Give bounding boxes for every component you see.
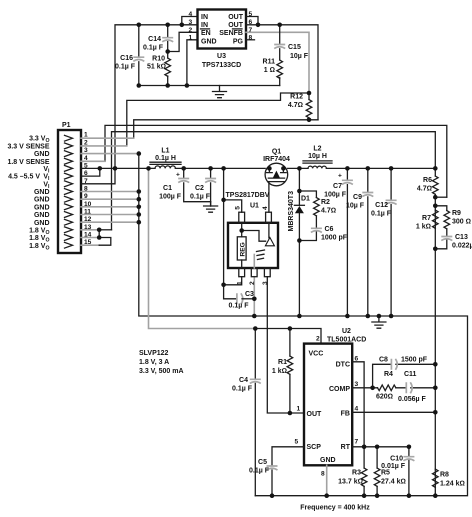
svg-text:3.3 V SENSE: 3.3 V SENSE: [7, 143, 49, 150]
svg-text:L1: L1: [161, 148, 169, 155]
svg-text:R4: R4: [384, 371, 393, 378]
svg-text:R6: R6: [423, 177, 432, 184]
svg-text:SENFB: SENFB: [219, 30, 243, 37]
svg-text:0.1µ F: 0.1µ F: [229, 303, 250, 310]
svg-text:R11: R11: [263, 59, 276, 66]
svg-text:GND: GND: [34, 151, 50, 158]
svg-text:1500 pF: 1500 pF: [401, 357, 428, 364]
svg-text:SCP: SCP: [307, 444, 322, 451]
svg-text:C10: C10: [390, 456, 403, 463]
svg-text:1000 pF: 1000 pF: [321, 235, 348, 242]
svg-text:R9: R9: [452, 210, 461, 217]
svg-text:OUT: OUT: [228, 14, 244, 21]
svg-text:RT: RT: [341, 444, 351, 451]
svg-text:GND: GND: [201, 39, 217, 46]
svg-text:4: 4: [355, 406, 359, 413]
svg-text:GND: GND: [320, 457, 336, 464]
svg-text:10µ H: 10µ H: [308, 153, 327, 160]
svg-text:C13: C13: [455, 234, 468, 241]
svg-text:1.8 V, 3 A: 1.8 V, 3 A: [139, 359, 169, 366]
svg-text:R8: R8: [440, 472, 449, 479]
svg-text:5: 5: [249, 11, 253, 18]
svg-text:VCC: VCC: [309, 351, 324, 358]
svg-text:C7: C7: [333, 183, 342, 190]
svg-text:0.1µ F: 0.1µ F: [232, 386, 253, 393]
svg-text:0.1µ F: 0.1µ F: [115, 64, 136, 71]
svg-text:+: +: [176, 172, 180, 179]
svg-text:IN: IN: [201, 14, 208, 21]
svg-text:0.1µ F: 0.1µ F: [143, 45, 164, 52]
svg-text:GND: GND: [34, 204, 50, 211]
svg-text:GND: GND: [34, 197, 50, 204]
svg-text:10µ F: 10µ F: [346, 203, 365, 210]
svg-text:GND: GND: [34, 189, 50, 196]
svg-text:EN: EN: [201, 30, 211, 37]
svg-text:3.3 V, 500 mA: 3.3 V, 500 mA: [139, 368, 184, 375]
svg-text:OUT: OUT: [228, 22, 244, 29]
svg-text:REG: REG: [239, 242, 246, 256]
svg-text:C16: C16: [120, 55, 133, 62]
svg-text:C8: C8: [379, 357, 388, 364]
svg-text:1 kΩ: 1 kΩ: [272, 368, 287, 375]
svg-text:GND: GND: [34, 220, 50, 227]
svg-text:1 kΩ: 1 kΩ: [416, 224, 431, 231]
svg-text:U2: U2: [342, 328, 351, 335]
svg-text:4: 4: [262, 206, 269, 210]
svg-text:7: 7: [355, 439, 359, 446]
svg-text:DTC: DTC: [336, 362, 350, 369]
svg-text:100µ F: 100µ F: [324, 192, 347, 199]
svg-text:R7: R7: [422, 215, 431, 222]
svg-text:4.7Ω: 4.7Ω: [321, 208, 336, 215]
svg-text:1: 1: [189, 35, 193, 42]
svg-text:IRF7404: IRF7404: [263, 156, 290, 163]
svg-text:100µ F: 100µ F: [159, 194, 182, 201]
svg-text:3: 3: [262, 281, 269, 285]
svg-text:R3: R3: [352, 470, 361, 477]
svg-text:27.4 kΩ: 27.4 kΩ: [381, 479, 406, 486]
svg-text:4.7Ω: 4.7Ω: [288, 102, 303, 109]
svg-text:620Ω: 620Ω: [376, 394, 393, 401]
svg-text:1.24 kΩ: 1.24 kΩ: [440, 481, 465, 488]
svg-text:0.1µ F: 0.1µ F: [249, 468, 270, 475]
svg-text:3: 3: [355, 381, 359, 388]
svg-text:0.01µ F: 0.01µ F: [381, 463, 406, 470]
svg-text:C12: C12: [375, 202, 388, 209]
svg-text:C4: C4: [239, 377, 248, 384]
svg-text:P1: P1: [62, 122, 71, 129]
svg-text:C11: C11: [404, 371, 417, 378]
svg-text:0.1µ H: 0.1µ H: [155, 155, 176, 162]
svg-text:2: 2: [316, 336, 320, 343]
svg-text:C5: C5: [258, 459, 267, 466]
svg-text:8: 8: [321, 471, 325, 478]
svg-text:Q1: Q1: [272, 149, 281, 156]
svg-text:TPS2817DBV: TPS2817DBV: [226, 192, 270, 199]
svg-text:C3: C3: [245, 291, 254, 298]
svg-text:7: 7: [249, 27, 253, 34]
svg-text:C15: C15: [288, 44, 301, 51]
svg-text:U1: U1: [250, 203, 259, 210]
svg-text:C14: C14: [148, 36, 161, 43]
svg-text:300 Ω: 300 Ω: [452, 219, 471, 226]
svg-text:5: 5: [295, 439, 299, 446]
svg-text:2: 2: [249, 281, 256, 285]
svg-text:GND: GND: [34, 212, 50, 219]
svg-text:FB: FB: [341, 411, 350, 418]
svg-text:2: 2: [189, 27, 193, 34]
svg-text:4: 4: [189, 11, 193, 18]
svg-text:R10: R10: [152, 56, 165, 63]
svg-text:MBRS340T3: MBRS340T3: [288, 191, 295, 232]
svg-text:D1: D1: [301, 196, 310, 203]
svg-text:5: 5: [235, 206, 242, 210]
svg-text:C1: C1: [163, 185, 172, 192]
svg-text:C9: C9: [353, 194, 362, 201]
svg-text:1.8 V SENSE: 1.8 V SENSE: [7, 159, 49, 166]
svg-text:1: 1: [237, 281, 244, 285]
svg-text:COMP: COMP: [329, 386, 350, 393]
svg-text:4.7Ω: 4.7Ω: [417, 186, 432, 193]
svg-text:13.7 kΩ: 13.7 kΩ: [338, 479, 363, 486]
svg-text:6: 6: [249, 19, 253, 26]
svg-text:OUT: OUT: [307, 411, 323, 418]
svg-text:4.5 –5.5 V: 4.5 –5.5 V: [8, 174, 40, 181]
svg-text:Frequency = 400 kHz: Frequency = 400 kHz: [300, 505, 370, 512]
svg-text:1 Ω: 1 Ω: [264, 67, 275, 74]
svg-text:3: 3: [189, 19, 193, 26]
svg-text:IN: IN: [201, 22, 208, 29]
svg-text:R1: R1: [278, 359, 287, 366]
svg-text:SLVP122: SLVP122: [139, 350, 169, 357]
svg-text:TPS7133CD: TPS7133CD: [202, 62, 241, 69]
svg-text:10µ F: 10µ F: [290, 53, 309, 60]
svg-text:R12: R12: [290, 94, 303, 101]
svg-text:C2: C2: [195, 185, 204, 192]
svg-text:51 kΩ: 51 kΩ: [147, 64, 166, 71]
svg-text:PG: PG: [233, 39, 244, 46]
svg-text:8: 8: [249, 35, 253, 42]
svg-text:TL5001ACD: TL5001ACD: [327, 337, 366, 344]
svg-text:+: +: [338, 173, 342, 180]
svg-text:R2: R2: [321, 199, 330, 206]
svg-text:R5: R5: [381, 470, 390, 477]
svg-text:0.056µ F: 0.056µ F: [398, 396, 426, 403]
svg-text:0.1µ F: 0.1µ F: [190, 194, 211, 201]
svg-text:U3: U3: [217, 53, 226, 60]
svg-text:C6: C6: [325, 226, 334, 233]
svg-text:1: 1: [297, 406, 301, 413]
svg-text:L2: L2: [313, 146, 321, 153]
svg-text:0.1µ F: 0.1µ F: [371, 211, 392, 218]
svg-text:0.022µ: 0.022µ: [452, 243, 472, 250]
